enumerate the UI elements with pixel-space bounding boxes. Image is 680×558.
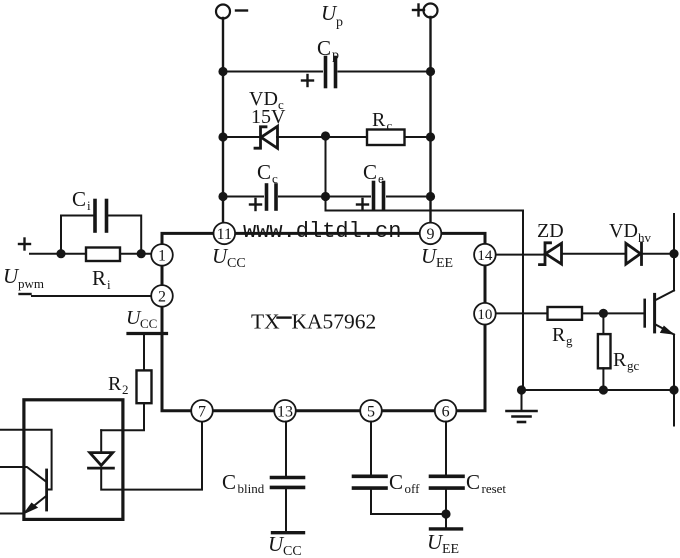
node Cp left xyxy=(218,67,227,76)
node Ri right xyxy=(137,249,146,258)
phototransistor emitter lead xyxy=(27,496,46,511)
terminal plus (Up+) xyxy=(424,4,438,18)
wire Rgc bottom xyxy=(602,368,604,390)
svg-text:C: C xyxy=(363,160,377,184)
pin 1 xyxy=(151,244,173,266)
wire left rail x=223 xyxy=(222,18,224,222)
node VDc right xyxy=(426,132,435,141)
wire pin10 to Rg xyxy=(496,312,548,314)
wire Ci branch xyxy=(61,216,93,254)
power bar UEE bottom xyxy=(431,527,462,530)
resistor R2 xyxy=(137,370,152,403)
svg-text:KA57962: KA57962 xyxy=(292,310,377,334)
phototransistor emitter wire out xyxy=(0,513,24,515)
phototransistor collector lead xyxy=(0,430,52,490)
power bar UCC xyxy=(128,332,167,335)
capacitor Cc xyxy=(265,185,269,209)
wire emitter rail xyxy=(673,335,675,426)
svg-text:C: C xyxy=(389,470,403,494)
svg-text:15V: 15V xyxy=(251,106,286,128)
node ground rail bottom xyxy=(517,385,526,394)
wire pin6 down xyxy=(445,422,447,475)
svg-text:gc: gc xyxy=(627,358,640,373)
svg-text:c: c xyxy=(272,171,278,186)
svg-text:p: p xyxy=(336,15,343,30)
svg-text:g: g xyxy=(566,333,573,348)
capacitor Cblind xyxy=(272,476,304,480)
capacitor Creset xyxy=(431,474,464,478)
optocoupler box xyxy=(24,400,123,520)
diode VDc (15V zener) xyxy=(255,127,266,148)
svg-text:13: 13 xyxy=(277,404,293,421)
diode ZD (zener) xyxy=(540,243,551,265)
wire ZD to VDhv xyxy=(563,253,626,255)
wire plus input xyxy=(30,253,86,255)
svg-text:R: R xyxy=(372,109,386,131)
capacitor Ce xyxy=(372,183,376,209)
svg-text:hv: hv xyxy=(638,230,652,245)
LED anode wire xyxy=(100,430,102,452)
pin 9 xyxy=(420,223,442,245)
svg-text:C: C xyxy=(222,470,236,494)
svg-text:www.dltdl.cn: www.dltdl.cn xyxy=(243,219,401,244)
capacitor Cp xyxy=(324,58,328,87)
wire pin14 to ZD xyxy=(496,254,544,256)
svg-text:e: e xyxy=(378,171,384,186)
svg-text:c: c xyxy=(387,118,393,133)
wire Ce row jog to ground rail xyxy=(326,197,524,391)
node Rgc bottom xyxy=(599,385,608,394)
ground xyxy=(507,411,537,422)
svg-text:i: i xyxy=(107,277,111,292)
label plus of Cc xyxy=(250,199,261,210)
svg-text:i: i xyxy=(87,198,91,213)
label minus sign xyxy=(236,9,247,11)
svg-text:R: R xyxy=(613,349,627,371)
pin 7 xyxy=(191,400,213,422)
label plus of Cp xyxy=(302,75,313,86)
pin 11 xyxy=(214,223,236,245)
svg-text:CC: CC xyxy=(140,316,157,331)
svg-text:2: 2 xyxy=(122,382,129,397)
label plus sign xyxy=(413,5,424,16)
capacitor Ci xyxy=(93,201,97,232)
svg-text:R: R xyxy=(552,324,566,346)
svg-text:blind: blind xyxy=(238,481,265,496)
pin 10 xyxy=(474,303,496,325)
wire Creset to UEE bar xyxy=(445,490,447,529)
svg-text:11: 11 xyxy=(217,226,232,243)
svg-text:R: R xyxy=(92,266,106,290)
wire Cp row xyxy=(223,71,322,73)
svg-text:10: 10 xyxy=(477,307,492,323)
svg-text:C: C xyxy=(257,160,271,184)
capacitor Coff xyxy=(354,474,387,478)
resistor Rg xyxy=(548,307,583,320)
wire Cblind to UCC bar xyxy=(285,489,287,533)
resistor Rc xyxy=(367,130,405,146)
node emitter-bottom xyxy=(669,385,678,394)
terminal minus (Up-) xyxy=(216,5,230,19)
svg-text:EE: EE xyxy=(442,542,459,557)
node input left xyxy=(56,249,65,258)
pin 6 xyxy=(435,400,457,422)
wire collector rail top xyxy=(673,214,675,291)
wire VDhv to collector rail xyxy=(642,253,675,255)
wire R2 to LED xyxy=(101,403,144,430)
svg-text:ZD: ZD xyxy=(537,220,564,242)
diode VDhv xyxy=(626,243,641,264)
wire VDc row xyxy=(223,136,260,138)
LED cathode wire xyxy=(101,422,202,490)
label plus input xyxy=(19,239,30,250)
svg-text:TX: TX xyxy=(251,310,280,334)
svg-text:VD: VD xyxy=(609,220,638,242)
pin 14 xyxy=(474,244,496,266)
node Cc-Ce mid xyxy=(321,192,330,201)
svg-text:C: C xyxy=(317,36,331,60)
wire minus input xyxy=(32,295,151,297)
pin 5 xyxy=(360,400,382,422)
node Cp right xyxy=(426,67,435,76)
svg-text:C: C xyxy=(466,470,480,494)
wire pin5 down xyxy=(370,422,372,475)
node VDc mid xyxy=(321,131,330,140)
svg-text:5: 5 xyxy=(367,404,375,421)
node collector rail xyxy=(669,249,678,258)
label plus of Ce xyxy=(357,199,368,210)
svg-text:R: R xyxy=(108,373,122,395)
wire pin13 down xyxy=(285,422,287,476)
wire Cc-Ce row xyxy=(223,196,263,198)
IC outline TX-KA57962 xyxy=(162,233,485,410)
svg-text:2: 2 xyxy=(158,289,166,306)
wire Rgc top xyxy=(602,313,604,334)
wire Ri to pin1 xyxy=(120,253,151,255)
wire bottom right horizontal xyxy=(522,389,675,391)
power bar UCC bottom xyxy=(273,531,304,534)
node Cc left xyxy=(218,192,227,201)
svg-text:CC: CC xyxy=(283,544,302,558)
transistor IGBT xyxy=(643,300,646,327)
svg-text:9: 9 xyxy=(427,226,435,243)
wire mid vertical VDc to Cc row xyxy=(325,136,327,197)
svg-text:14: 14 xyxy=(477,248,493,264)
wire right rail x=430 xyxy=(429,17,431,223)
svg-text:CC: CC xyxy=(227,256,246,271)
svg-text:p: p xyxy=(332,48,339,63)
wire Coff bottom jog xyxy=(371,490,446,514)
wire UCC to R2 xyxy=(143,334,145,371)
svg-text:pwm: pwm xyxy=(18,276,44,291)
svg-text:6: 6 xyxy=(442,404,450,421)
svg-text:7: 7 xyxy=(198,404,206,421)
node Rg-Rgc xyxy=(599,309,608,318)
svg-text:1: 1 xyxy=(158,248,166,265)
label minus input xyxy=(20,293,31,295)
pin 13 xyxy=(274,400,296,422)
phototransistor base lead xyxy=(0,467,46,481)
resistor Ri xyxy=(86,248,120,262)
node VDc left xyxy=(218,132,227,141)
phototransistor body bar xyxy=(45,470,48,510)
svg-text:C: C xyxy=(72,187,86,211)
diode LED (optocoupler) xyxy=(90,453,113,466)
wire Rg to gate xyxy=(582,312,645,314)
pin 2 xyxy=(151,285,173,307)
svg-text:off: off xyxy=(405,481,421,496)
node Coff-Creset xyxy=(441,509,450,518)
svg-text:EE: EE xyxy=(436,256,453,271)
node Ce right xyxy=(426,192,435,201)
wire ground stub xyxy=(521,390,523,411)
svg-text:reset: reset xyxy=(482,481,507,496)
resistor Rgc xyxy=(598,334,611,368)
